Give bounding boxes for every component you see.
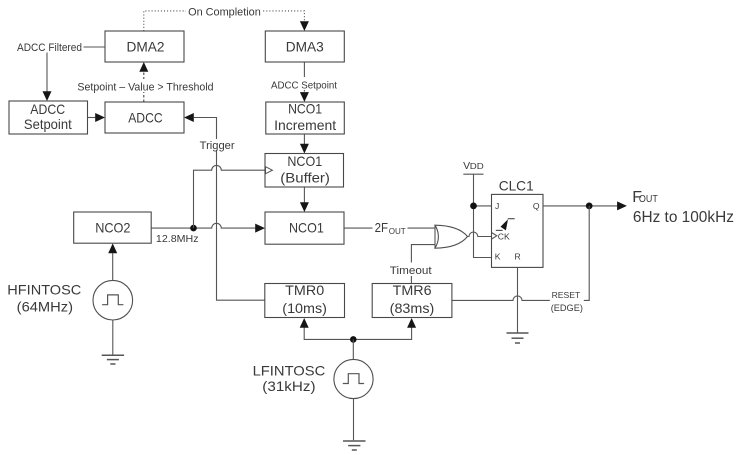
- svg-text:Timeout: Timeout: [390, 265, 432, 277]
- svg-text:ADCC: ADCC: [30, 101, 65, 117]
- svg-text:(Buffer): (Buffer): [280, 170, 330, 186]
- svg-text:CK: CK: [498, 231, 510, 241]
- svg-text:RESET: RESET: [552, 290, 581, 300]
- svg-text:HFINTOSC: HFINTOSC: [7, 281, 81, 297]
- svg-text:Setpoint: Setpoint: [24, 116, 72, 132]
- svg-text:12.8MHz: 12.8MHz: [156, 233, 199, 245]
- svg-text:6Hz to 100kHz: 6Hz to 100kHz: [633, 209, 734, 226]
- svg-text:ADCC: ADCC: [128, 109, 163, 125]
- svg-text:(EDGE): (EDGE): [551, 303, 583, 313]
- svg-text:R: R: [515, 252, 521, 262]
- svg-text:NCO1: NCO1: [287, 153, 322, 169]
- svg-text:On Completion: On Completion: [188, 6, 261, 18]
- svg-text:CLC1: CLC1: [499, 178, 534, 194]
- svg-text:(64MHz): (64MHz): [17, 299, 73, 315]
- svg-text:K: K: [495, 252, 501, 262]
- svg-text:NCO1: NCO1: [289, 220, 324, 236]
- svg-text:Increment: Increment: [274, 117, 336, 133]
- svg-text:DMA3: DMA3: [286, 38, 324, 54]
- svg-text:NCO1: NCO1: [288, 101, 322, 117]
- svg-text:Setpoint – Value > Threshold: Setpoint – Value > Threshold: [77, 81, 213, 93]
- svg-text:ADCC Setpoint: ADCC Setpoint: [271, 79, 337, 91]
- svg-text:J: J: [495, 201, 499, 211]
- svg-text:TMR0: TMR0: [285, 282, 324, 298]
- svg-text:OUT: OUT: [389, 226, 406, 236]
- svg-text:2F: 2F: [375, 220, 388, 235]
- svg-text:DMA2: DMA2: [127, 38, 165, 54]
- svg-text:ADCC Filtered: ADCC Filtered: [17, 42, 82, 54]
- svg-text:TMR6: TMR6: [393, 282, 432, 298]
- svg-text:Q: Q: [533, 201, 540, 211]
- svg-text:(83ms): (83ms): [390, 300, 435, 316]
- svg-text:(10ms): (10ms): [282, 300, 327, 316]
- svg-text:Trigger: Trigger: [200, 140, 235, 152]
- svg-text:OUT: OUT: [639, 194, 658, 205]
- svg-text:LFINTOSC: LFINTOSC: [253, 363, 326, 379]
- svg-text:NCO2: NCO2: [95, 219, 130, 235]
- svg-text:(31kHz): (31kHz): [262, 378, 315, 394]
- svg-text:DD: DD: [470, 162, 484, 171]
